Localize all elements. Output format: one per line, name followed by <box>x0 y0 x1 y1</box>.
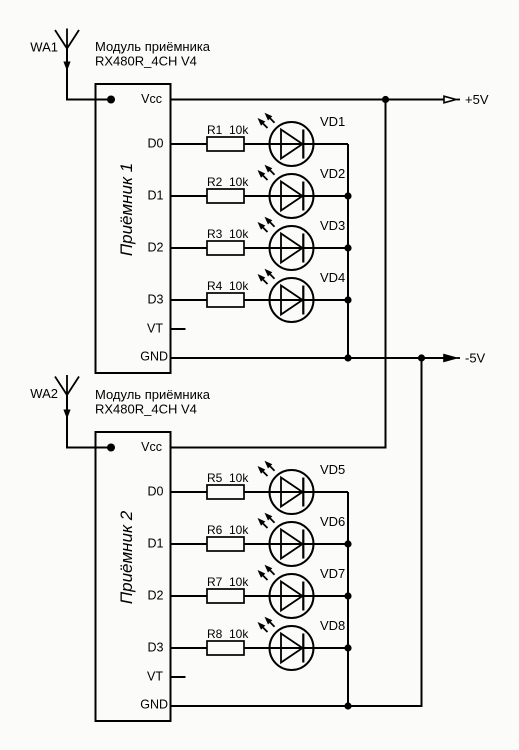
LED VD2 <box>258 165 314 218</box>
junction dot rail to GND wire <box>344 354 351 361</box>
wire R4 to VD4 and cathode to rail <box>244 299 348 301</box>
svg-text:GND: GND <box>140 697 168 711</box>
wire R8 to VD8 and cathode to rail <box>244 647 348 649</box>
receiver module U2 box <box>96 432 171 721</box>
svg-text:R3 10k: R3 10k <box>207 227 249 241</box>
svg-text:D1: D1 <box>148 189 164 203</box>
power terminal -5V <box>444 355 460 362</box>
wire R7 to VD7 and cathode to rail <box>244 595 348 597</box>
resistor R3 <box>207 241 244 255</box>
LED VD5 <box>258 461 314 514</box>
svg-text:Модуль приёмника: Модуль приёмника <box>95 387 211 402</box>
svg-text:VT: VT <box>147 669 163 683</box>
resistor R7 <box>207 589 244 603</box>
label Модуль приёмника RX480R_4CH V4 <box>95 387 211 417</box>
svg-text:D3: D3 <box>148 641 164 655</box>
wire D2 of U1 to R3 <box>171 247 208 249</box>
wire R1 to VD1 and cathode to rail <box>244 143 348 145</box>
svg-text:+5V: +5V <box>465 92 489 107</box>
svg-text:D2: D2 <box>148 241 164 255</box>
junction dot +5V rail <box>382 96 389 103</box>
wire D0 of U2 to R5 <box>171 491 208 493</box>
LED VD4 <box>258 269 314 322</box>
label Модуль приёмника RX480R_4CH V4 <box>95 39 211 69</box>
svg-text:Приёмник 2: Приёмник 2 <box>117 510 136 604</box>
wire cathode rail of VD1-VD4 <box>347 144 349 358</box>
junction dot VD6 cathode on rail <box>344 540 351 547</box>
svg-text:D2: D2 <box>148 589 164 603</box>
svg-text:VT: VT <box>147 321 163 335</box>
wire WA2 to U2 antenna pin <box>67 395 111 448</box>
svg-text:VD7: VD7 <box>320 566 345 581</box>
svg-text:Приёмник 1: Приёмник 1 <box>117 163 136 256</box>
wire Vcc of U1 to +5V terminal <box>171 99 445 101</box>
resistor R1 <box>207 137 244 151</box>
wire VT stub of U1 <box>171 328 186 330</box>
wire GND of U1 to -5V terminal <box>171 357 445 359</box>
wire D0 of U1 to R1 <box>171 143 208 145</box>
svg-text:D0: D0 <box>148 485 164 499</box>
svg-text:RX480R_4CH V4: RX480R_4CH V4 <box>95 402 197 417</box>
svg-text:VD3: VD3 <box>320 218 345 233</box>
resistor R2 <box>207 189 244 203</box>
power terminal +5V <box>444 96 460 103</box>
svg-text:RX480R_4CH V4: RX480R_4CH V4 <box>95 54 197 69</box>
svg-text:Модуль приёмника: Модуль приёмника <box>95 39 211 54</box>
wire cathode rail of VD5-VD8 <box>347 492 349 706</box>
svg-text:GND: GND <box>140 349 168 363</box>
wire +5V rail down to U2 Vcc <box>171 100 386 448</box>
antenna WA1 <box>55 29 79 72</box>
svg-text:R1 10k: R1 10k <box>207 123 249 137</box>
junction dot VD3 cathode on rail <box>344 244 351 251</box>
svg-text:D1: D1 <box>148 537 164 551</box>
wire D1 of U1 to R2 <box>171 195 208 197</box>
resistor R6 <box>207 537 244 551</box>
svg-text:-5V: -5V <box>465 351 486 366</box>
wire R5 to VD5 and cathode to rail <box>244 491 348 493</box>
junction dot -5V rail <box>418 354 425 361</box>
resistor R4 <box>207 293 244 307</box>
LED VD3 <box>258 217 314 270</box>
svg-text:R5 10k: R5 10k <box>207 471 249 485</box>
wire D2 of U2 to R7 <box>171 595 208 597</box>
LED VD6 <box>258 513 314 566</box>
junction dot VD8 cathode on rail <box>344 644 351 651</box>
wire D3 of U1 to R4 <box>171 299 208 301</box>
junction dot VD2 cathode on rail <box>344 192 351 199</box>
LED VD1 <box>258 113 314 166</box>
wire D3 of U2 to R8 <box>171 647 208 649</box>
svg-text:VD4: VD4 <box>320 270 345 285</box>
svg-text:WA1: WA1 <box>30 40 58 55</box>
wire -5V rail down to U2 GND <box>171 358 422 706</box>
svg-text:Vcc: Vcc <box>141 440 162 454</box>
svg-text:VD1: VD1 <box>320 114 345 129</box>
junction dot rail to GND wire <box>344 702 351 709</box>
svg-text:VD2: VD2 <box>320 166 345 181</box>
wire WA1 to U1 antenna pin <box>67 49 111 100</box>
svg-text:D0: D0 <box>148 137 164 151</box>
svg-text:Vcc: Vcc <box>141 92 162 106</box>
junction dot U2 antenna pin <box>107 444 115 452</box>
svg-text:VD8: VD8 <box>320 618 345 633</box>
wire R6 to VD6 and cathode to rail <box>244 543 348 545</box>
svg-text:WA2: WA2 <box>30 386 58 401</box>
receiver module U1 box <box>96 84 171 373</box>
svg-text:D3: D3 <box>148 293 164 307</box>
wire D1 of U2 to R6 <box>171 543 208 545</box>
svg-text:R2 10k: R2 10k <box>207 175 249 189</box>
svg-text:R8 10k: R8 10k <box>207 627 249 641</box>
svg-text:VD5: VD5 <box>320 462 345 477</box>
wire VT stub of U2 <box>171 676 186 678</box>
LED VD8 <box>258 617 314 670</box>
wire R2 to VD2 and cathode to rail <box>244 195 348 197</box>
svg-text:R6 10k: R6 10k <box>207 523 249 537</box>
svg-text:R4 10k: R4 10k <box>207 279 249 293</box>
resistor R8 <box>207 641 244 655</box>
junction dot VD4 cathode on rail <box>344 296 351 303</box>
resistor R5 <box>207 485 244 499</box>
wire R3 to VD3 and cathode to rail <box>244 247 348 249</box>
svg-text:R7 10k: R7 10k <box>207 575 249 589</box>
antenna WA2 <box>55 375 79 419</box>
LED VD7 <box>258 565 314 618</box>
junction dot U1 antenna pin <box>107 96 115 104</box>
svg-text:VD6: VD6 <box>320 514 345 529</box>
junction dot VD7 cathode on rail <box>344 592 351 599</box>
